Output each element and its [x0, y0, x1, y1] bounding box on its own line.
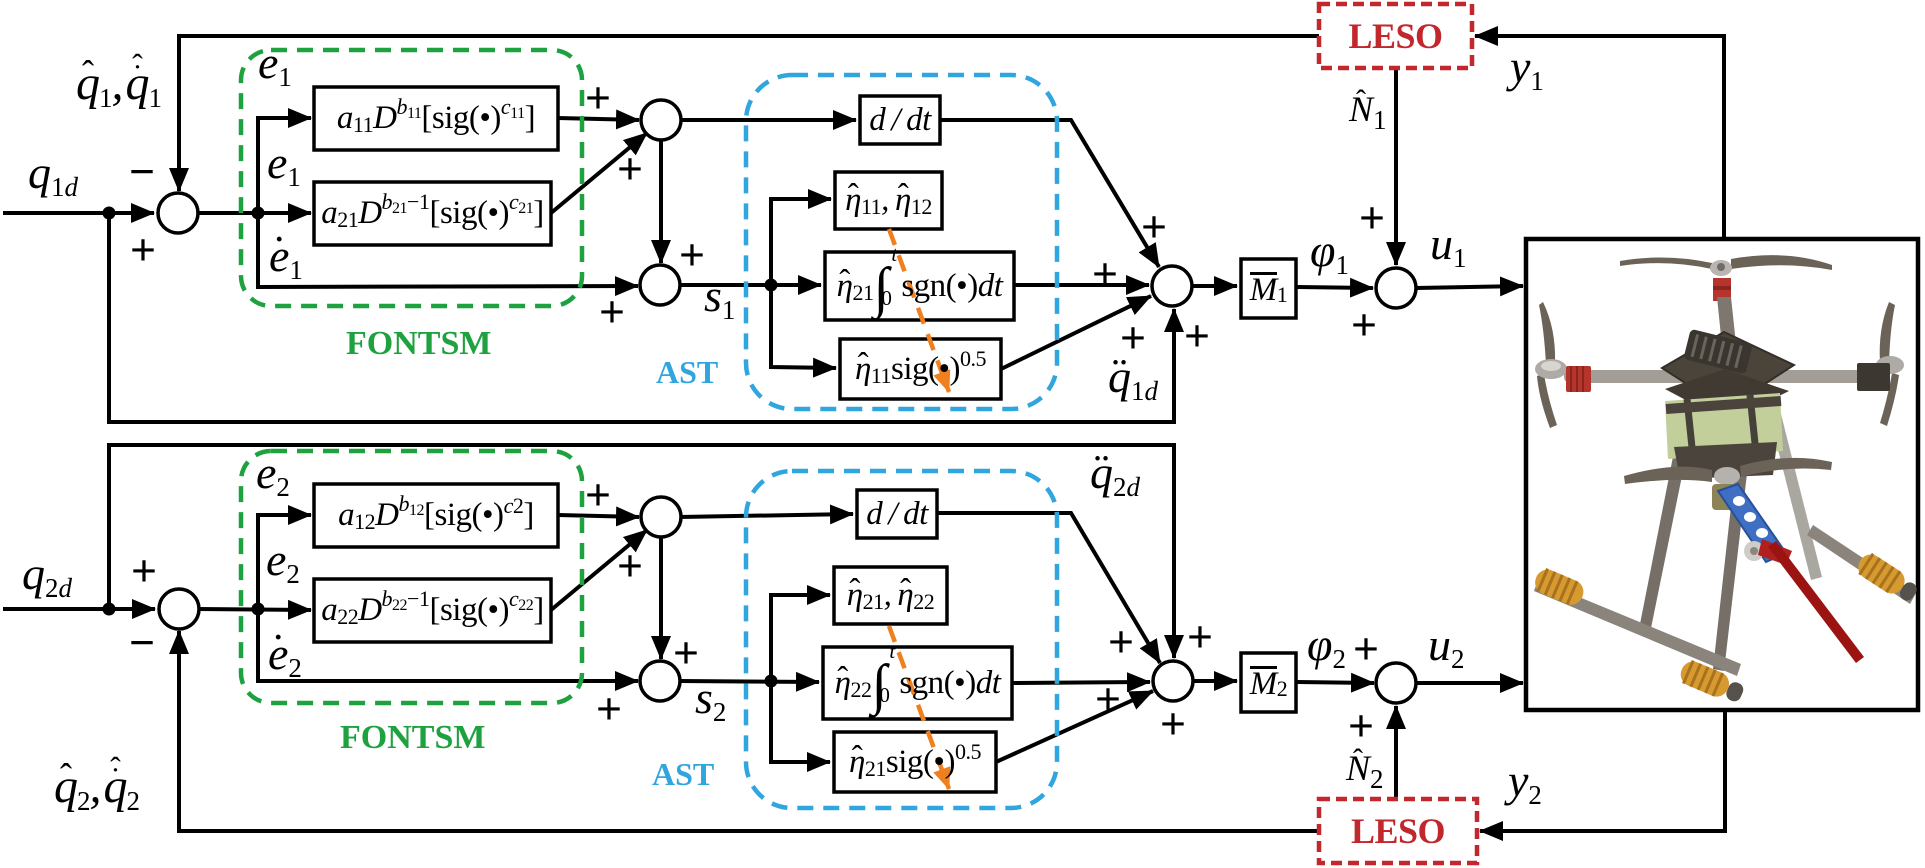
- wire C1 down to s1: [659, 139, 663, 263]
- label phi2: [1307, 622, 1346, 668]
- block eta22 integral: [823, 647, 1012, 719]
- wire s2 node branch down to eta21 sig block: [771, 681, 830, 762]
- wire E2 to a22 block: [199, 609, 311, 610]
- label M2 bar: [1241, 653, 1296, 712]
- label block a11: [314, 87, 558, 150]
- label LESO 2: [1319, 799, 1477, 863]
- quad right silver leg: [1769, 410, 1822, 580]
- block eta21 sig: [834, 732, 996, 792]
- block a12: [314, 484, 558, 547]
- node dot q1d split: [103, 207, 116, 220]
- sign plus E1: [125, 231, 161, 267]
- summing junction U1: [1376, 268, 1416, 308]
- wire d/dt2 out diagonal to sum B2: [937, 513, 1160, 663]
- sign plus e2dot in: [591, 690, 627, 726]
- wire y2 from plant to LESO2: [1480, 711, 1725, 831]
- label AST 2: [652, 758, 714, 790]
- wire s1 node branch up to eta11,eta12 block: [771, 199, 831, 285]
- wire M2 to sum U2: [1297, 682, 1374, 683]
- label e1 dot: [269, 233, 303, 279]
- wire e2dot path to s2: [258, 609, 638, 681]
- wire feedforward q2d dotdot path: [109, 445, 1174, 658]
- node dot q2d split: [103, 603, 116, 616]
- wire u2 to plant: [1417, 681, 1523, 685]
- quadrotor plant photo box: [1526, 239, 1918, 710]
- sign plus eta11sig diag: [1115, 319, 1151, 355]
- block a21: [314, 182, 551, 245]
- label q1d: [28, 150, 78, 196]
- block M2: [1241, 653, 1296, 712]
- summing junction E2: [159, 589, 199, 629]
- label block eta11 sig: [840, 339, 1001, 399]
- label e2 dot: [268, 631, 302, 677]
- wire B2 to M2 block: [1193, 679, 1237, 683]
- wire C2 to d/dt2: [680, 514, 853, 517]
- block eta21 integral: [825, 252, 1014, 320]
- wire feedforward q1d dotdot path: [109, 213, 1174, 422]
- dashed LESO1 box: [1319, 4, 1472, 68]
- label block eta21 integral: [825, 252, 1014, 320]
- quad right dark motor block: [1857, 363, 1890, 391]
- sign plus phi1: [1346, 306, 1382, 342]
- block M1: [1241, 259, 1296, 318]
- sign plus C1 down: [674, 236, 710, 272]
- label block eta11 eta12: [835, 172, 942, 229]
- node split up to a11 block: [258, 118, 311, 213]
- quad battery: [1665, 393, 1783, 459]
- label block a22: [314, 579, 551, 642]
- block eta11 sig: [840, 339, 1001, 399]
- orange adaptation arrow top: [889, 229, 949, 392]
- quad top propeller: [1620, 255, 1832, 276]
- wire s2 node branch up to eta21,eta22 block: [771, 595, 830, 681]
- wire s2 to eta22 integral block: [679, 681, 819, 682]
- sign plus feedforward 2: [1182, 618, 1218, 654]
- sign minus E1: [124, 153, 160, 189]
- quad mid plate: [1665, 369, 1789, 422]
- summing junction C1: [641, 100, 681, 140]
- quad red stick: [1768, 541, 1864, 663]
- label e1 mid: [267, 140, 301, 186]
- sign plus a12 out: [580, 476, 616, 512]
- dashed AST box 1: [746, 75, 1057, 409]
- wire s1 node branch down to eta11 sig block: [771, 285, 836, 368]
- wire a12 out to sum C2: [558, 515, 639, 517]
- wire e1dot path to s1: [258, 213, 638, 287]
- label qhat2 qdothat2: [54, 763, 139, 811]
- label qhat1 qdothat1: [76, 60, 161, 108]
- wire eta11 sig out diagonal to sum B1: [1001, 296, 1151, 369]
- quad mast: [1717, 297, 1736, 346]
- label FONTSM 1: [346, 327, 491, 361]
- block d/dt 1: [860, 96, 940, 144]
- wire y1 from plant to LESO1: [1475, 36, 1724, 239]
- wire eta22 integral out to sum B2: [1012, 682, 1150, 683]
- wire a21 diagonal to sum C1: [551, 133, 647, 213]
- sign plus phi2: [1348, 630, 1384, 666]
- sign plus N2: [1343, 707, 1379, 743]
- quad blue manipulator arm: [1718, 484, 1786, 562]
- wire N2 from LESO2 up to sum U2: [1394, 706, 1398, 799]
- label FONTSM 2: [340, 721, 485, 755]
- dashed FONTSM box 1: [241, 50, 582, 306]
- label q2d dotdot: [1090, 450, 1140, 496]
- quad right propeller: [1876, 302, 1904, 426]
- wire s1 to eta21 integral block: [680, 283, 821, 287]
- orange adaptation arrow bottom: [889, 626, 949, 789]
- label e2 upper: [256, 450, 290, 496]
- label N2 hat: [1346, 750, 1384, 786]
- quad top red motor mount: [1713, 278, 1731, 301]
- block d/dt 2: [857, 490, 937, 538]
- wire LESO1 feedback to sum E1: [179, 36, 1319, 191]
- label phi1: [1310, 228, 1349, 274]
- sign plus ddt1 diag: [1136, 208, 1172, 244]
- sign plus e1dot in: [594, 293, 630, 329]
- label block ddt2: [857, 490, 937, 538]
- wire M1 to sum U1: [1297, 287, 1373, 288]
- wire eta21 integral out to sum B1: [1014, 283, 1149, 287]
- quad bottom propeller: [1624, 458, 1832, 485]
- label block eta21 eta22: [834, 567, 947, 624]
- wire q2d input: [3, 607, 155, 611]
- label e2 mid: [266, 537, 300, 583]
- quad left skid foam front: [1531, 566, 1587, 609]
- node dot s2 split: [765, 675, 778, 688]
- label block a12: [314, 484, 558, 547]
- block eta21,eta22: [834, 567, 947, 624]
- quad middle leg: [1713, 461, 1748, 671]
- dashed FONTSM box 2: [241, 451, 582, 703]
- sign plus eta21 out: [1087, 255, 1123, 291]
- label M1 bar: [1241, 259, 1296, 318]
- label block a21: [314, 182, 551, 245]
- quad right skid tube: [1807, 525, 1916, 604]
- wire LESO2 feedback to sum E2: [179, 631, 1319, 831]
- label u2: [1428, 622, 1465, 668]
- wire C1 to d/dt: [681, 118, 856, 122]
- label LESO 1: [1319, 4, 1472, 68]
- node dot e2 split: [252, 603, 265, 616]
- sign plus a11 out: [580, 79, 616, 115]
- label AST 1: [656, 356, 718, 388]
- label s2: [695, 675, 726, 721]
- label N1 hat: [1349, 91, 1387, 127]
- summing junction U2: [1376, 663, 1416, 703]
- quad gripper joint: [1744, 539, 1792, 565]
- summing junction E1: [158, 193, 198, 233]
- block eta11,eta12: [835, 172, 942, 229]
- label s1: [704, 273, 735, 319]
- quad left skid foam rear: [1677, 658, 1747, 706]
- quad bottom motor: [1712, 484, 1742, 510]
- label block eta22 integral: [823, 647, 1012, 719]
- label q1d dotdot: [1108, 354, 1158, 400]
- quad left propeller: [1535, 302, 1567, 428]
- quad left leg: [1639, 411, 1694, 633]
- quad left skid tube: [1534, 580, 1741, 676]
- dashed AST box 2: [746, 471, 1057, 808]
- quad right skid foam: [1854, 550, 1921, 606]
- summing junction B2: [1153, 661, 1193, 701]
- label q2d: [22, 551, 72, 597]
- quad lower plates: [1674, 442, 1777, 479]
- sign plus eta21sig diag: [1155, 705, 1191, 741]
- node dot s1 split: [765, 279, 778, 292]
- quad center plate vents: [1683, 329, 1753, 375]
- label y2: [1508, 758, 1542, 804]
- quad center top plate: [1662, 332, 1794, 409]
- label u1: [1430, 221, 1467, 267]
- wire C2 down to s2: [659, 536, 663, 659]
- dashed LESO2 box: [1319, 799, 1477, 863]
- wire a22 diagonal to sum C2: [551, 530, 647, 610]
- label e1 upper: [258, 40, 292, 86]
- summing junction C2: [641, 497, 681, 537]
- quad main arm: [1564, 370, 1884, 383]
- sign plus eta22 out: [1090, 680, 1126, 716]
- sign plus E2: [126, 552, 162, 588]
- wire u1 to plant: [1416, 286, 1523, 288]
- node split up to a12 block: [258, 515, 311, 609]
- wire eta21 sig out diagonal to sum B2: [996, 691, 1153, 762]
- sign plus feedforward 1: [1179, 317, 1215, 353]
- sign plus a22 diag: [612, 547, 648, 583]
- label y1: [1510, 44, 1544, 90]
- wire B1 to M1 block: [1192, 284, 1237, 288]
- wire N1 from LESO1 down to sum U1: [1394, 69, 1398, 265]
- label block ddt1: [860, 96, 940, 144]
- node dot e1 split: [252, 207, 265, 220]
- sign minus E2: [124, 624, 160, 660]
- wire d/dt out diagonal to sum B1: [940, 120, 1159, 267]
- sign plus ddt2 diag: [1103, 623, 1139, 659]
- summing junction S1: [640, 265, 680, 305]
- wire a11 out to sum C1: [558, 118, 639, 120]
- summing junction S2: [640, 661, 680, 701]
- sign plus C2 down: [668, 634, 704, 670]
- wire E1 to a21 block: [198, 211, 311, 215]
- sign plus N1: [1354, 199, 1390, 235]
- block a11: [314, 87, 558, 150]
- wire q1d input: [3, 211, 154, 215]
- sign plus a21 diag: [612, 150, 648, 186]
- label block eta21 sig: [834, 732, 996, 792]
- quad left red motor block: [1566, 366, 1591, 392]
- summing junction B1: [1152, 266, 1192, 306]
- block a22: [314, 579, 551, 642]
